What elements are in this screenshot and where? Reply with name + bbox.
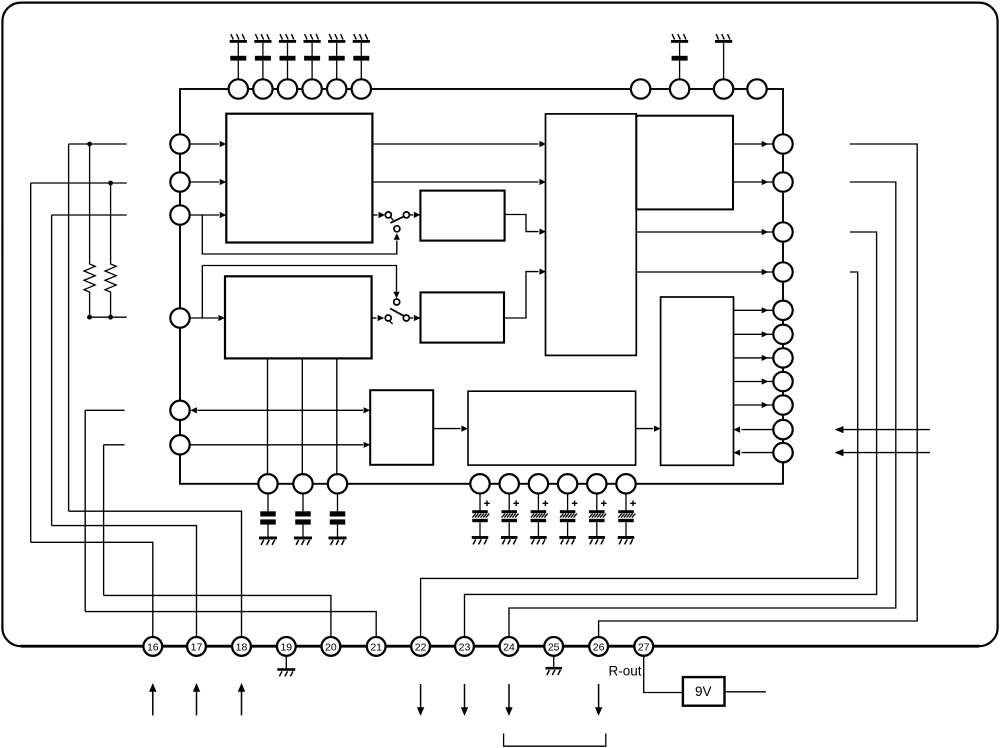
IC pad right 11 xyxy=(773,443,792,462)
block B (lower-left) xyxy=(225,276,372,358)
wire block G output 5 to pin (y=405.0) xyxy=(734,402,774,408)
capacitor C2 with ground (top row) xyxy=(254,34,271,79)
switch S2 pole circle xyxy=(385,315,391,321)
electrolytic capacitor C12 with ground (IC bottom right group) xyxy=(501,494,519,545)
junction dot R2 top xyxy=(108,181,113,186)
electrolytic capacitor C13 with ground (IC bottom right group) xyxy=(530,494,548,545)
IC pad left 6 xyxy=(170,435,189,454)
pin 25 xyxy=(544,637,563,656)
svg-text:21: 21 xyxy=(370,641,382,653)
IC pad right 1 xyxy=(773,134,792,153)
capacitor C10 with ground (IC bottom left group) xyxy=(329,494,347,545)
IC pad left 1 xyxy=(170,134,189,153)
IC pad left 4 xyxy=(170,308,189,327)
wire vertical x=51.6 (pin3 net down to pin 17 wire) xyxy=(51,215,53,526)
wire block B output to switch S2 xyxy=(372,315,385,321)
capacitor C4 with ground (top row) xyxy=(304,34,321,79)
wire block G output 4 to pin (y=381.5) xyxy=(734,378,774,384)
electrolytic capacitor C16 with ground (IC bottom right group) xyxy=(618,494,636,545)
wire vertical x=68.6 (pin1 net down to pin 18 wire) xyxy=(68,144,70,511)
resistor R2 xyxy=(105,183,116,317)
wire to pin 16 xyxy=(31,542,153,637)
IC pad top 4 xyxy=(302,79,321,98)
IC pad right 4 xyxy=(773,262,792,281)
pin 27 xyxy=(634,637,653,656)
wire block E output 2 to pin (y=272) xyxy=(637,269,774,275)
IC pad bottom 7 xyxy=(558,474,577,493)
capacitor C6 with ground (top row) xyxy=(353,34,370,79)
wire switch S2 to block D xyxy=(409,315,420,321)
IC pad left 5 xyxy=(170,401,189,420)
wire stub to pin 2 (y=183) xyxy=(31,182,127,184)
wire block F output 2 to pin (y=182) xyxy=(733,179,773,185)
wire right stub net A (y=144 to pin 26) xyxy=(599,144,918,637)
wire block I to block G xyxy=(636,426,661,432)
svg-text:25: 25 xyxy=(548,641,560,653)
wire right stub net D (y=272 to pin 22) xyxy=(421,272,858,637)
wire block B bottom lead 2 xyxy=(301,358,303,474)
capacitor C9 with ground (IC bottom left group) xyxy=(294,494,312,545)
wire to pin 20 xyxy=(104,595,331,637)
arrow down (below pin 24) xyxy=(505,684,512,716)
IC pad bottom 5 xyxy=(500,474,519,493)
wire switch S1 to block C xyxy=(409,212,420,218)
wire switch S2 throw to pin4 net xyxy=(202,266,399,319)
wire block G output 2 to pin (y=334.3) xyxy=(734,331,774,337)
block F (top right) xyxy=(636,116,733,210)
IC pad bottom 6 xyxy=(529,474,548,493)
wire stub to pin 6 (y=444.8) xyxy=(104,444,125,446)
wire to pin 18 xyxy=(69,511,242,637)
wire block H to block I xyxy=(433,426,468,432)
wire right stub net B (y=182 to pin 24) xyxy=(509,182,896,637)
IC pad bottom 2 xyxy=(293,474,312,493)
wire switch S1 feedback to pin3 net xyxy=(202,215,400,254)
IC pad top 1 xyxy=(229,79,248,98)
arrow down (below pin 23) xyxy=(461,684,468,716)
wire pin 6 to block H input 2 xyxy=(190,442,370,448)
switch S2 blade xyxy=(390,309,404,316)
IC pad right 10 xyxy=(773,420,792,439)
svg-text:22: 22 xyxy=(415,641,427,653)
IC body outline bus xyxy=(180,89,783,484)
arrow down (below pin 26) xyxy=(595,684,602,716)
wire block A output 1 to block E xyxy=(372,141,546,147)
electrolytic capacitor C11 with ground (IC bottom right group) xyxy=(472,494,490,545)
switch S1 pole circle xyxy=(385,212,391,218)
wire pin 27 to battery xyxy=(644,656,683,693)
wire pin to block G input 1 (y=429.6) xyxy=(734,427,774,433)
wire block E output 1 to pin (y=232) xyxy=(637,229,774,235)
block C (small upper middle) xyxy=(420,191,504,241)
wire block G output 3 to pin (y=357.9) xyxy=(734,355,774,361)
switch S2 pole tick xyxy=(389,321,392,324)
wire block B bottom lead 1 xyxy=(267,358,269,474)
wire block G output 1 to pin (y=310.3) xyxy=(734,307,774,313)
IC pad right 5 xyxy=(773,301,792,320)
ground (top, direct on pin x=723.6) xyxy=(715,34,732,79)
IC pad left 3 xyxy=(170,205,189,224)
wire pin to block G input 2 (y=452.6) xyxy=(734,450,774,456)
wire block F output 1 to pin (y=144) xyxy=(733,141,773,147)
svg-text:18: 18 xyxy=(236,641,248,653)
wire stub to pin 1 (y=144) xyxy=(69,143,127,145)
IC pad top 5 xyxy=(327,79,346,98)
switch S1 throw circle bottom xyxy=(394,226,400,232)
capacitor C5 with ground (top row) xyxy=(328,34,345,79)
IC pad top 6 xyxy=(352,79,371,98)
block A (top-left large) xyxy=(226,114,372,243)
battery 9V box xyxy=(683,677,725,706)
junction dot R2 bottom xyxy=(108,315,113,320)
IC pad right 9 xyxy=(773,395,792,414)
wire pin 5 to block H input 1 (bidirectional) xyxy=(190,407,370,413)
wire pin bus (bottom, through pins 16-27) xyxy=(21,645,979,648)
block E (tall center) xyxy=(546,114,637,356)
wire battery output xyxy=(725,691,766,693)
wire stub to pin 5 (y=410.3) xyxy=(85,409,124,411)
IC pad bottom 9 xyxy=(616,474,635,493)
svg-text:19: 19 xyxy=(280,641,292,653)
block G (right lower) xyxy=(661,297,734,465)
wire external input arrow lower right xyxy=(835,449,930,456)
IC pad top right 3 xyxy=(714,79,733,98)
IC pad top 3 xyxy=(278,79,297,98)
pin 17 xyxy=(187,637,206,656)
bracket under pins 24-26 xyxy=(504,734,606,747)
svg-text:9V: 9V xyxy=(695,684,712,699)
IC pad top right 2 xyxy=(670,79,689,98)
resistor R1 xyxy=(84,144,95,317)
electrolytic capacitor C14 with ground (IC bottom right group) xyxy=(559,494,577,545)
wire block C output to block E xyxy=(505,215,546,235)
svg-text:26: 26 xyxy=(593,641,605,653)
wire pin 2 to block A input 2 xyxy=(190,179,226,185)
wire vertical x=30.7 (pin2 net down to pin 16 wire) xyxy=(30,183,32,542)
capacitor C8 with ground (IC bottom left group) xyxy=(259,494,277,545)
IC pad right 6 xyxy=(773,325,792,344)
IC pad top 2 xyxy=(253,79,272,98)
wire right stub net C (y=232 to pin 23) xyxy=(465,232,877,637)
wire block B bottom lead 3 xyxy=(336,358,338,474)
junction dot R1 bottom xyxy=(87,315,92,320)
svg-text:23: 23 xyxy=(459,641,471,653)
svg-text:20: 20 xyxy=(325,641,337,653)
wire to pin 17 xyxy=(52,526,197,637)
wire pin 4 to block B input xyxy=(190,315,225,321)
svg-text:24: 24 xyxy=(503,641,515,653)
arrow up (below pin 16) xyxy=(149,683,156,715)
arrow down (below pin 22) xyxy=(417,684,424,716)
pin 19 xyxy=(277,637,296,656)
svg-text:17: 17 xyxy=(191,641,203,653)
capacitor C7 with ground (top right) xyxy=(671,34,688,79)
wire vertical x=85.2 (pin5 net down to pin 21 wire) xyxy=(84,410,86,611)
IC pad bottom 4 xyxy=(470,474,489,493)
svg-text:16: 16 xyxy=(147,641,159,653)
wire vertical x=103.6 (pin6 net down to pin 20 wire) xyxy=(103,445,105,596)
pin 24 xyxy=(500,637,519,656)
svg-text:27: 27 xyxy=(638,641,650,653)
switch S1 throw circle right xyxy=(403,212,409,218)
capacitor C3 with ground (top row) xyxy=(279,34,296,79)
ground (pin 19) xyxy=(277,656,295,676)
pin 26 xyxy=(589,637,608,656)
capacitor C1 with ground (top row) xyxy=(230,34,247,79)
wire resistor bottom rail to pin 4 stub xyxy=(87,316,127,318)
pin 21 xyxy=(367,637,386,656)
junction dot R1 top xyxy=(87,142,92,147)
svg-text:R-out: R-out xyxy=(609,664,642,679)
IC pad right 7 xyxy=(773,348,792,367)
pin 16 xyxy=(143,637,162,656)
wire block A output 2 to block E xyxy=(372,179,546,185)
wire block A output 3 to switch S1 xyxy=(372,212,385,218)
IC pad bottom 8 xyxy=(587,474,606,493)
block I (bottom wide) xyxy=(468,391,636,465)
IC pad bottom 1 xyxy=(258,474,277,493)
pin 18 xyxy=(232,637,251,656)
wire pin 1 to block A input 1 xyxy=(190,141,226,147)
wire stub to pin 3 (y=215) xyxy=(52,214,127,216)
IC pad top right 1 xyxy=(631,79,650,98)
switch S1 blade xyxy=(390,216,404,223)
pin 20 xyxy=(322,637,341,656)
electrolytic capacitor C15 with ground (IC bottom right group) xyxy=(589,494,607,545)
wire external input arrow upper right xyxy=(835,426,930,433)
pin 23 xyxy=(455,637,474,656)
block D (small lower middle) xyxy=(421,292,505,342)
IC pad bottom 3 xyxy=(328,474,347,493)
pin 22 xyxy=(411,637,430,656)
switch S2 throw circle top xyxy=(394,299,400,305)
IC pad top right 4 xyxy=(747,79,766,98)
IC pad right 2 xyxy=(773,172,792,191)
IC pad right 8 xyxy=(773,372,792,391)
IC pad right 3 xyxy=(773,222,792,241)
wire block D output to block E xyxy=(504,269,546,319)
switch S2 throw circle right xyxy=(403,315,409,321)
ground (pin 25) xyxy=(545,656,562,675)
block H (bottom small) xyxy=(370,390,433,465)
wire pin 3 to block A input 3 xyxy=(190,212,226,218)
arrow up (below pin 17) xyxy=(193,683,200,715)
IC pad left 2 xyxy=(170,172,189,191)
arrow up (below pin 18) xyxy=(238,683,245,715)
wire to pin 21 xyxy=(85,612,376,637)
